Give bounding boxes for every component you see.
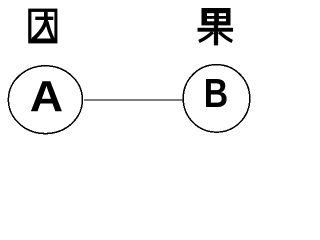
大 vertical stroke: [44, 12, 48, 22]
node B circle: [183, 65, 250, 133]
大 horizontal stroke: [35, 17, 53, 20]
大 right leg: [47, 22, 53, 40]
kanji 因 (cause) label: [28, 9, 57, 44]
田 block: [202, 8, 231, 25]
kanji 果 (effect) label: [198, 8, 234, 45]
box of 因: [28, 9, 57, 44]
svg-text:B: B: [204, 70, 228, 116]
木 horizontal stroke: [198, 28, 234, 32]
木 right leg: [219, 32, 232, 41]
木 vertical stroke: [214, 25, 218, 45]
svg-text:A: A: [30, 71, 63, 120]
node A circle: [8, 66, 82, 134]
connector wire between node A and node B: [84, 99, 183, 101]
木 left leg: [199, 32, 213, 41]
大 left leg: [33, 20, 46, 39]
